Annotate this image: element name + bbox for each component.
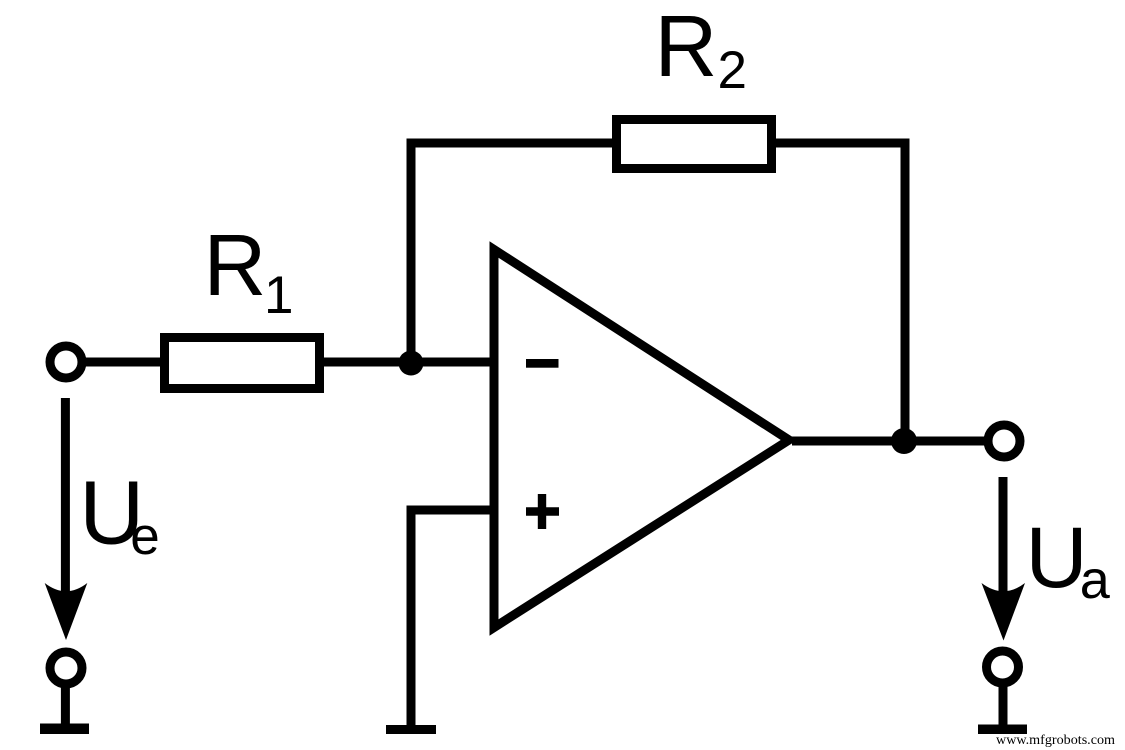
- resistor R1: [165, 338, 320, 389]
- svg-text:www.mfgrobots.com: www.mfgrobots.com: [996, 733, 1115, 748]
- ground (non-inverting input): [386, 725, 436, 734]
- wire feedback right vertical: [901, 143, 910, 441]
- ground bar (output reference): [978, 725, 1027, 735]
- node output junction: [891, 428, 917, 454]
- op-amp U1: [494, 250, 789, 628]
- wire feedback left vertical: [407, 143, 416, 363]
- ground bar (input reference): [40, 724, 89, 735]
- ground stub (input reference): [61, 684, 70, 725]
- arrow Ua head: [982, 583, 1026, 641]
- input terminal circle: [50, 346, 82, 378]
- svg-text:1: 1: [264, 266, 293, 325]
- wire output junction to output terminal: [905, 437, 984, 446]
- terminal circle Ua bottom: [987, 651, 1019, 683]
- arrow Ue head: [45, 583, 88, 640]
- minus sign (inverting input): [526, 359, 559, 368]
- svg-text:R: R: [655, 0, 718, 95]
- resistor R2: [617, 120, 772, 169]
- output terminal circle: [988, 425, 1020, 457]
- wire non-inverting input vertical to ground: [407, 506, 416, 726]
- wire op-amp output to junction: [792, 437, 905, 446]
- wire non-inverting input horizontal: [411, 506, 494, 515]
- wire R1 to inverting input: [324, 358, 494, 367]
- svg-text:U: U: [1026, 510, 1088, 606]
- plus sign (non-inverting input): [526, 494, 559, 529]
- svg-text:2: 2: [718, 41, 747, 100]
- terminal circle Ue bottom: [50, 652, 82, 684]
- wire feedback top right: [776, 139, 910, 148]
- ground stub (output reference): [999, 682, 1008, 725]
- wire feedback top left: [407, 139, 613, 148]
- svg-text:e: e: [130, 507, 159, 566]
- arrow Ue shaft: [61, 398, 70, 592]
- node inverting-input junction: [399, 351, 424, 376]
- wire input terminal to R1: [85, 358, 164, 367]
- svg-text:a: a: [1080, 550, 1111, 610]
- arrow Ua shaft: [999, 477, 1008, 592]
- svg-text:R: R: [204, 217, 267, 314]
